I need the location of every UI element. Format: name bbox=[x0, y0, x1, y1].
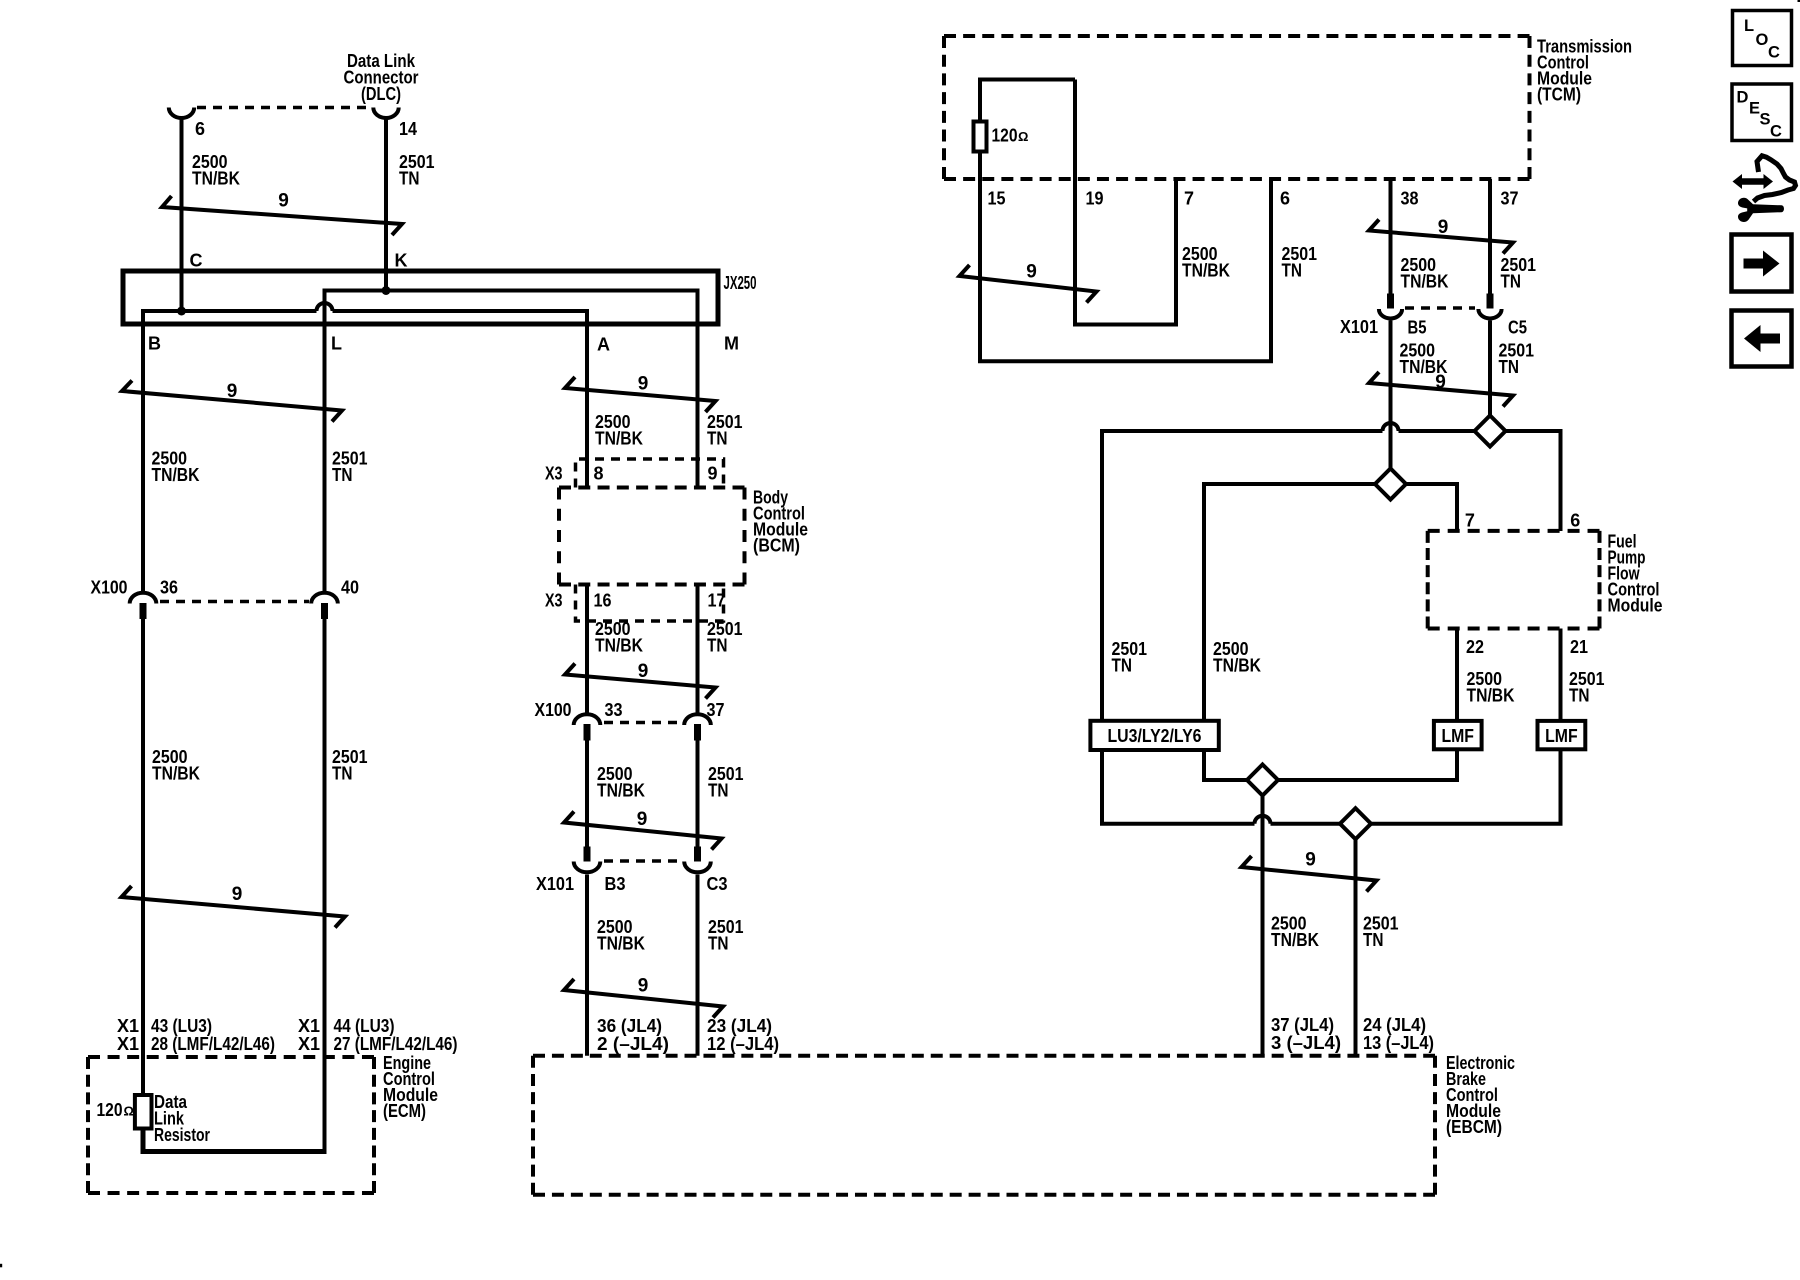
wire label 2500 TN/BK (22) bbox=[1467, 669, 1515, 706]
wire 2501 TN FPFCM 21 to LMF bbox=[1559, 629, 1563, 721]
bus wire 2500 TN/BK lower bbox=[1204, 749, 1457, 780]
wire label 2500 TN/BK bbox=[152, 449, 200, 486]
svg-text:X1: X1 bbox=[298, 1016, 320, 1036]
label Engine Control Module (ECM) bbox=[383, 1053, 438, 1121]
connector X101 female terminal B5 bbox=[1379, 309, 1402, 319]
X100 connector dashed line bbox=[160, 600, 309, 604]
svg-text:9: 9 bbox=[1435, 372, 1446, 393]
svg-text:JX250: JX250 bbox=[724, 273, 757, 293]
svg-text:TN/BK: TN/BK bbox=[1213, 656, 1261, 676]
page corner mark bottom left bbox=[0, 1264, 2, 1268]
svg-text:TN/BK: TN/BK bbox=[152, 764, 200, 784]
connector X100 male pin 33 bbox=[584, 724, 591, 741]
svg-text:X1: X1 bbox=[117, 1034, 139, 1054]
svg-text:TN: TN bbox=[1499, 357, 1520, 377]
svg-text:TN: TN bbox=[332, 465, 353, 485]
svg-text:C: C bbox=[1768, 44, 1780, 62]
connector X100 male pin 36 bbox=[140, 603, 147, 619]
svg-text:TN: TN bbox=[1501, 272, 1522, 292]
twisted pair symbol 9 (TCM 15/19) bbox=[960, 265, 1097, 303]
pin 36/2 labels (EBCM) bbox=[597, 1016, 669, 1054]
svg-text:TN/BK: TN/BK bbox=[1182, 261, 1230, 281]
wire 2501 TN BCM to X100 bbox=[696, 585, 700, 713]
svg-text:TN: TN bbox=[707, 636, 728, 656]
wire 2501 TN X101 to EBCM bbox=[696, 875, 700, 1056]
svg-text:TN: TN bbox=[399, 169, 420, 189]
svg-text:7: 7 bbox=[1465, 511, 1475, 531]
splice diamond 2501 bbox=[1475, 416, 1506, 447]
label Data Link Resistor bbox=[154, 1092, 210, 1145]
svg-text:TN/BK: TN/BK bbox=[1467, 686, 1515, 706]
svg-text:9: 9 bbox=[227, 381, 238, 402]
svg-text:38: 38 bbox=[1401, 189, 1419, 209]
connector X100 male pin 40 bbox=[321, 603, 328, 619]
svg-text:TN/BK: TN/BK bbox=[1271, 930, 1319, 950]
pin 23/12 labels (EBCM) bbox=[707, 1016, 779, 1054]
connector X101 male pin C3 bbox=[694, 847, 701, 862]
module box BCM dashed bbox=[559, 488, 745, 585]
option box LMF (21) bbox=[1538, 721, 1586, 749]
twisted pair symbol 9 (B5/C5) bbox=[1369, 372, 1513, 407]
svg-text:9: 9 bbox=[638, 661, 649, 682]
module box TCM dashed bbox=[944, 36, 1530, 179]
module box ECM dashed bbox=[88, 1057, 374, 1193]
wire label 2500 TN/BK (B5) bbox=[1400, 340, 1448, 377]
wire 2501 TN TCM 37 to X101 bbox=[1488, 179, 1492, 294]
connector X101 female terminal C5 bbox=[1478, 309, 1501, 318]
svg-text:17: 17 bbox=[708, 591, 726, 611]
bus wire upper (2501) inside JX250 bbox=[325, 291, 698, 592]
svg-text:9: 9 bbox=[638, 374, 649, 395]
svg-text:40: 40 bbox=[341, 578, 359, 598]
wire 2500 TN/BK BCM to X100 bbox=[585, 585, 589, 713]
connector X101 male pin C5 bbox=[1487, 294, 1494, 309]
icon compare double arrow bbox=[1733, 174, 1774, 189]
bus wire 2500 TN/BK upper bbox=[1204, 484, 1457, 721]
twisted pair symbol 9 (DLC) bbox=[162, 196, 402, 235]
svg-text:9: 9 bbox=[1026, 262, 1037, 283]
svg-text:44 (LU3): 44 (LU3) bbox=[334, 1016, 395, 1036]
connector X101 male pin B3 bbox=[584, 847, 591, 862]
wire label 2501 TN bbox=[399, 152, 435, 189]
X101 connector dashed line bbox=[1405, 306, 1475, 310]
svg-text:9: 9 bbox=[708, 464, 718, 484]
svg-text:9: 9 bbox=[638, 976, 649, 997]
wire label 2501 TN (21) bbox=[1569, 669, 1605, 706]
twisted pair symbol 9 (X100-X101) bbox=[564, 812, 722, 850]
twisted pair symbol 9 (lower B/L) bbox=[122, 886, 346, 928]
svg-text:(TCM): (TCM) bbox=[1537, 84, 1581, 104]
page corner mark top right bbox=[1798, 0, 1800, 2]
twisted pair symbol 9 (TCM 38/37) bbox=[1369, 220, 1513, 254]
wire 2500 TN/BK B5 down to splice bbox=[1389, 321, 1393, 485]
svg-text:X3: X3 bbox=[545, 464, 563, 484]
splice diamond 2500 lower bbox=[1247, 765, 1278, 796]
wire label 2501 TN bbox=[708, 764, 744, 801]
svg-text:Ω: Ω bbox=[124, 1104, 134, 1119]
wire 2501 TN C5 down to splice bbox=[1488, 321, 1492, 432]
svg-text:14: 14 bbox=[399, 119, 417, 139]
wire 2500 TN/BK from DLC 6 to JX250 C bbox=[180, 116, 184, 311]
connector X100 female terminal 37 bbox=[684, 714, 711, 725]
wire label 2500 TN/BK (TCM 7) bbox=[1182, 244, 1230, 281]
svg-text:24 (JL4): 24 (JL4) bbox=[1363, 1015, 1426, 1035]
connector DLC terminal pin 6 bbox=[169, 108, 194, 118]
svg-text:9: 9 bbox=[1305, 850, 1316, 871]
X100 connector dashed line bbox=[604, 721, 682, 725]
svg-text:9: 9 bbox=[1438, 217, 1449, 238]
svg-text:C: C bbox=[1770, 123, 1782, 141]
wire 2500 TN/BK X100 to ECM bbox=[141, 619, 145, 1095]
svg-text:D: D bbox=[1737, 89, 1749, 107]
svg-text:9: 9 bbox=[232, 884, 243, 905]
wire label 2501 TN bbox=[332, 449, 368, 486]
wire TCM pin 19 to pin 7 loop bbox=[1075, 80, 1176, 325]
svg-text:(ECM): (ECM) bbox=[383, 1101, 426, 1121]
svg-text:13 (–JL4): 13 (–JL4) bbox=[1363, 1033, 1434, 1053]
svg-text:28 (LMF/L42/L46): 28 (LMF/L42/L46) bbox=[151, 1034, 275, 1054]
svg-text:27 (LMF/L42/L46): 27 (LMF/L42/L46) bbox=[334, 1034, 458, 1054]
wire 2501 TN from DLC 14 to JX250 K bbox=[384, 116, 388, 291]
wire label 2500 TN/BK bbox=[595, 412, 643, 449]
bus wire lower (2500) inside JX250 with hop bbox=[143, 303, 587, 592]
svg-text:TN/BK: TN/BK bbox=[595, 636, 643, 656]
wire 2500 TN/BK FPFCM 22 to LMF bbox=[1455, 629, 1459, 721]
connector X101 male pin B5 bbox=[1387, 294, 1394, 309]
svg-text:36: 36 bbox=[160, 578, 178, 598]
svg-text:120: 120 bbox=[992, 126, 1018, 146]
svg-text:O: O bbox=[1756, 31, 1769, 49]
wire label 2500 TN/BK bbox=[192, 152, 240, 189]
twisted pair symbol 9 (EBCM) bbox=[1242, 856, 1377, 892]
option box LU3/LY2/LY6 bbox=[1090, 721, 1218, 750]
wire label 2500 TN/BK bbox=[152, 747, 200, 784]
wire label 2501 TN (C5) bbox=[1499, 340, 1535, 377]
svg-text:TN: TN bbox=[1363, 930, 1384, 950]
svg-text:TN: TN bbox=[1282, 261, 1303, 281]
twisted pair symbol 9 (B/L) bbox=[122, 381, 342, 422]
node junction C on 2500 bus bbox=[177, 307, 186, 316]
wire label 2501 TN (EBCM) bbox=[1363, 914, 1399, 951]
label Body Control Module (BCM) bbox=[753, 488, 808, 556]
svg-text:36 (JL4): 36 (JL4) bbox=[597, 1016, 662, 1036]
svg-text:LU3/LY2/LY6: LU3/LY2/LY6 bbox=[1108, 726, 1202, 746]
label Transmission Control Module (TCM) bbox=[1537, 36, 1632, 104]
svg-text:L: L bbox=[331, 334, 342, 354]
svg-text:7: 7 bbox=[1184, 189, 1194, 209]
svg-text:X100: X100 bbox=[535, 700, 572, 720]
svg-text:E: E bbox=[1749, 99, 1760, 117]
twisted pair symbol 9 (A/M upper) bbox=[565, 377, 716, 412]
pin 37/3 labels (EBCM) bbox=[1271, 1015, 1341, 1053]
svg-text:21: 21 bbox=[1570, 637, 1588, 657]
svg-text:6: 6 bbox=[1570, 511, 1580, 531]
svg-text:2 (–JL4): 2 (–JL4) bbox=[597, 1034, 669, 1054]
svg-text:15: 15 bbox=[988, 189, 1006, 209]
resistor TCM 120 ohm bbox=[974, 122, 987, 152]
svg-text:X3: X3 bbox=[545, 591, 563, 611]
svg-text:9: 9 bbox=[637, 809, 648, 830]
resistor Data Link Resistor 120 ohm bbox=[135, 1095, 152, 1129]
connector X101 female terminal C3 bbox=[684, 862, 711, 873]
wire label 2500 TN/BK (38) bbox=[1401, 255, 1449, 292]
pin row X1 44/27 labels bbox=[298, 1016, 458, 1054]
svg-text:X101: X101 bbox=[536, 874, 574, 894]
svg-text:37 (JL4): 37 (JL4) bbox=[1271, 1015, 1334, 1035]
svg-text:A: A bbox=[597, 335, 610, 355]
wire 2501 TN X100 to X101 bbox=[696, 741, 700, 847]
svg-text:TN: TN bbox=[707, 429, 728, 449]
svg-text:C5: C5 bbox=[1508, 318, 1527, 338]
wire 2500 TN/BK X101 to EBCM bbox=[585, 875, 589, 1056]
wire 2501 TN X100 to ECM bbox=[323, 619, 327, 1154]
svg-text:Module: Module bbox=[1608, 596, 1663, 616]
svg-text:B5: B5 bbox=[1408, 318, 1427, 338]
svg-text:S: S bbox=[1760, 110, 1771, 128]
svg-text:(EBCM): (EBCM) bbox=[1446, 1117, 1502, 1137]
svg-text:12 (–JL4): 12 (–JL4) bbox=[707, 1034, 779, 1054]
wire label 2500 TN/BK (EBCM) bbox=[1271, 914, 1319, 951]
svg-text:16: 16 bbox=[594, 591, 612, 611]
svg-text:X1: X1 bbox=[298, 1034, 320, 1054]
svg-text:(DLC): (DLC) bbox=[361, 84, 401, 104]
wire label 2500 TN/BK (LU3 right) bbox=[1213, 639, 1261, 676]
wire label 2501 TN (LU3 left) bbox=[1112, 639, 1148, 676]
resistor value label 120 ohm bbox=[992, 126, 1029, 146]
splice diamond 2501 lower bbox=[1340, 808, 1371, 839]
svg-text:22: 22 bbox=[1466, 637, 1484, 657]
module box Fuel Pump Flow Control Module dashed bbox=[1428, 531, 1600, 629]
svg-text:B: B bbox=[148, 334, 161, 354]
svg-text:33: 33 bbox=[605, 700, 623, 720]
svg-text:LMF: LMF bbox=[1545, 726, 1578, 746]
twisted pair symbol 9 (A/M mid) bbox=[565, 664, 716, 699]
connector X100 female terminal 36 bbox=[130, 593, 157, 604]
bus wire 2501 TN upper with hop bbox=[1102, 423, 1561, 721]
label Fuel Pump Flow Control Module bbox=[1608, 532, 1663, 616]
svg-text:TN: TN bbox=[1112, 656, 1133, 676]
svg-text:6: 6 bbox=[1280, 189, 1290, 209]
svg-text:TN: TN bbox=[1569, 686, 1590, 706]
icon compare wrench bbox=[1738, 198, 1784, 222]
svg-text:23 (JL4): 23 (JL4) bbox=[707, 1016, 772, 1036]
connector X101 female terminal B3 bbox=[574, 862, 601, 873]
wire 2500 TN/BK TCM 38 to X101 bbox=[1389, 179, 1393, 294]
svg-text:(BCM): (BCM) bbox=[753, 536, 800, 556]
svg-text:C3: C3 bbox=[707, 874, 728, 894]
wire label 2501 TN bbox=[332, 747, 368, 784]
svg-text:19: 19 bbox=[1086, 189, 1104, 209]
svg-text:TN/BK: TN/BK bbox=[597, 781, 645, 801]
svg-text:M: M bbox=[724, 334, 739, 354]
svg-text:6: 6 bbox=[195, 119, 205, 139]
wire TCM pin 15 to pin 6 loop bbox=[980, 152, 1271, 362]
svg-text:Ω: Ω bbox=[1018, 129, 1028, 144]
svg-text:LMF: LMF bbox=[1441, 726, 1474, 746]
pin row X1 43/28 labels bbox=[117, 1016, 275, 1054]
svg-text:TN/BK: TN/BK bbox=[152, 465, 200, 485]
wire 2501 TN splice to EBCM 24 bbox=[1354, 824, 1358, 1056]
icon button DESC bbox=[1732, 84, 1792, 141]
connector X100 female terminal 33 bbox=[574, 714, 601, 725]
svg-text:TN/BK: TN/BK bbox=[192, 169, 240, 189]
connector X100 female terminal 40 bbox=[311, 593, 338, 604]
module box EBCM dashed bbox=[533, 1056, 1435, 1195]
svg-text:TN/BK: TN/BK bbox=[1401, 272, 1449, 292]
svg-text:B3: B3 bbox=[605, 874, 626, 894]
svg-text:X100: X100 bbox=[91, 578, 128, 598]
wire 2500 TN/BK X100 to X101 bbox=[585, 741, 589, 847]
connector DLC terminal pin 14 bbox=[373, 108, 398, 119]
wire label 2500 TN/BK bbox=[595, 619, 643, 656]
svg-text:3 (–JL4): 3 (–JL4) bbox=[1271, 1033, 1341, 1053]
wire label 2501 TN bbox=[708, 917, 744, 954]
label Data Link Connector (DLC) bbox=[344, 51, 419, 104]
svg-text:120: 120 bbox=[97, 1100, 123, 1120]
wire label 2500 TN/BK bbox=[597, 764, 645, 801]
icon button LOC bbox=[1733, 11, 1792, 66]
DLC connector dashed line bbox=[197, 106, 371, 110]
X101 connector dashed line bbox=[604, 859, 682, 863]
twisted pair symbol 9 (above EBCM) bbox=[564, 979, 723, 1018]
icon button back arrow bbox=[1732, 311, 1792, 367]
pin 24/13 labels (EBCM) bbox=[1363, 1015, 1434, 1053]
wire label 2501 TN bbox=[707, 412, 743, 449]
splice diamond 2500 bbox=[1375, 469, 1406, 500]
icon compare squiggle bbox=[1754, 156, 1796, 202]
wire label 2501 TN (37) bbox=[1501, 255, 1537, 292]
svg-text:L: L bbox=[1744, 17, 1754, 35]
icon button forward arrow bbox=[1732, 235, 1792, 292]
wire 2500 TN/BK splice to EBCM 37 bbox=[1261, 780, 1265, 1056]
svg-text:37: 37 bbox=[1501, 189, 1519, 209]
option box LMF (22) bbox=[1434, 721, 1482, 749]
svg-text:TN: TN bbox=[708, 934, 729, 954]
wire label 2501 TN bbox=[707, 619, 743, 656]
svg-text:8: 8 bbox=[594, 464, 604, 484]
svg-text:K: K bbox=[395, 251, 408, 271]
resistor value label 120 ohm bbox=[97, 1100, 134, 1120]
svg-text:Resistor: Resistor bbox=[154, 1125, 210, 1145]
svg-text:9: 9 bbox=[278, 191, 289, 212]
wire label 2500 TN/BK bbox=[597, 917, 645, 954]
svg-text:C: C bbox=[190, 251, 203, 271]
wire label 2501 TN (TCM 6) bbox=[1282, 244, 1318, 281]
connector X3 pin row (8/9) dashed bbox=[576, 459, 724, 488]
bus wire 2501 TN lower with hop bbox=[1102, 749, 1561, 823]
wire TCM internal top loop bbox=[980, 80, 1075, 122]
node junction K on 2501 bus bbox=[382, 286, 391, 295]
svg-text:X101: X101 bbox=[1340, 317, 1378, 337]
junction block JX250 outline bbox=[123, 271, 718, 324]
svg-text:TN: TN bbox=[332, 764, 353, 784]
connector X100 male pin 37 bbox=[694, 724, 701, 741]
svg-text:TN/BK: TN/BK bbox=[597, 934, 645, 954]
wire resistor bottom to ECM internal bus bbox=[143, 1129, 327, 1152]
svg-text:TN/BK: TN/BK bbox=[595, 429, 643, 449]
connector X3 pin row (16/17) dashed bbox=[576, 585, 724, 622]
label Electronic Brake Control Module (EBCM) bbox=[1446, 1053, 1515, 1137]
svg-text:TN: TN bbox=[708, 781, 729, 801]
svg-text:X1: X1 bbox=[117, 1016, 139, 1036]
svg-text:43 (LU3): 43 (LU3) bbox=[151, 1016, 212, 1036]
